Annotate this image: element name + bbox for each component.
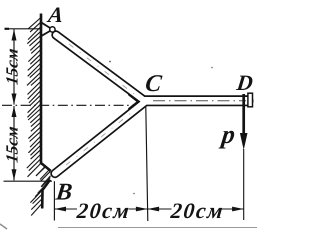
bracket at A xyxy=(41,22,53,36)
extension below C xyxy=(146,107,148,221)
V vertex inner edges at C xyxy=(129,95,138,109)
scan artifact bottom line xyxy=(58,227,257,229)
extension line at A level xyxy=(5,28,43,30)
svg-text:C: C xyxy=(144,71,164,97)
pin at A xyxy=(50,27,55,32)
bar dash-dot centerlines xyxy=(66,44,246,165)
svg-text:p: p xyxy=(218,120,237,149)
svg-text:15см: 15см xyxy=(2,47,21,86)
extra wall hatch near B bulge xyxy=(36,166,50,193)
extension below D (continuation of P line) xyxy=(243,149,245,220)
svg-text:B: B xyxy=(53,180,73,206)
left dimension line 15cm lower xyxy=(13,106,15,180)
end cap at D xyxy=(248,93,253,107)
extension line at B level xyxy=(4,180,53,182)
svg-text:15см: 15см xyxy=(2,125,21,164)
svg-text:20см: 20см xyxy=(75,198,132,223)
wall hatching xyxy=(27,17,51,216)
dim arrowheads left xyxy=(12,29,17,180)
bars AC, BC, CD white interiors xyxy=(55,35,248,174)
svg-text:A: A xyxy=(45,2,65,27)
wall xyxy=(41,14,51,209)
bars AC, BC, CD outer outlines xyxy=(55,35,248,174)
left dimension line 15cm upper xyxy=(13,29,15,104)
bottom dim arrowheads xyxy=(54,207,243,212)
force P arrow at D xyxy=(242,94,245,135)
extension below B xyxy=(53,181,55,220)
svg-text:D: D xyxy=(234,70,254,95)
scan speck dots xyxy=(109,61,111,63)
svg-text:20см: 20см xyxy=(169,198,226,223)
bottom dimension line segments xyxy=(55,208,244,210)
dash-dot horizontal axis xyxy=(2,104,141,106)
